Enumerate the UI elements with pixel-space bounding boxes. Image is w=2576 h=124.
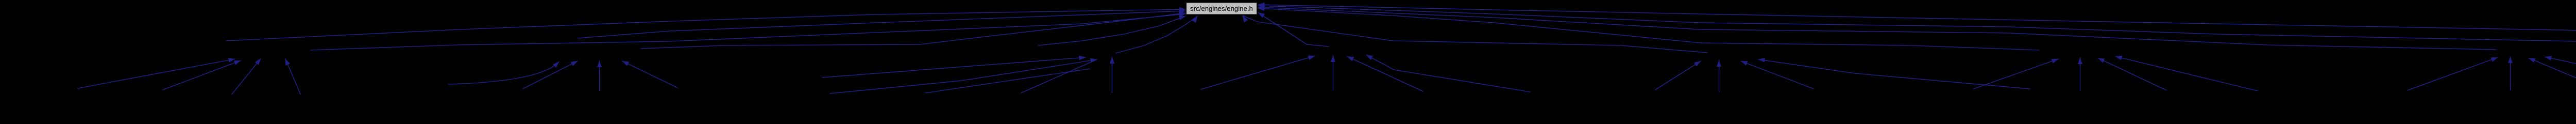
edge C -> engine.h (right, corner)	[1258, 12, 1329, 47]
edge into node E #3	[2098, 58, 2167, 90]
edge into node E #4	[2115, 56, 2258, 91]
edge U1 -> engine.h (left, uppermost)	[226, 7, 1186, 41]
edge into node D #3	[1741, 61, 1814, 89]
edge into node X #1	[822, 56, 1086, 78]
edge into node B #3 (vertical)	[597, 60, 602, 91]
edge E -> engine.h (right)	[1258, 6, 2040, 50]
edge into node A #4	[285, 58, 301, 95]
edge H -> engine.h (right)	[1258, 3, 2576, 50]
edge into node C #3	[1347, 56, 1423, 91]
edge U2 -> engine.h (left, upper)	[578, 9, 1186, 38]
edge into node B #1	[448, 61, 560, 84]
edge into node X #3	[1021, 59, 1097, 93]
edge S2 -> engine.h (left, corner)	[1038, 16, 1186, 45]
edge into node D #1	[1655, 61, 1701, 90]
edge into node F #1	[2408, 57, 2498, 90]
edge G -> engine.h (right)	[1258, 4, 2576, 48]
edge into node E #2 (vertical)	[2078, 57, 2082, 91]
edge F -> engine.h (right)	[1258, 5, 2497, 50]
edge B -> engine.h (left, lower)	[641, 11, 1186, 49]
edge X -> engine.h (bottom-left arrow)	[1116, 16, 1198, 53]
edge A -> engine.h (left, mid)	[311, 12, 1186, 50]
edge into node D #2 (vertical)	[1717, 60, 1721, 92]
edge into node C #2 (vertical)	[1331, 55, 1335, 90]
edge into node X #5 (vertical)	[1110, 57, 1114, 93]
edge into node B #4	[622, 61, 678, 88]
edge into node A #3	[232, 58, 261, 95]
edge into node C #1	[1201, 55, 1315, 89]
edge into node F #2 (vertical)	[2508, 56, 2513, 90]
edge into node F #4	[2545, 56, 2576, 90]
edge into node X #4 (lower shallow)	[925, 69, 1090, 93]
edge into node E #1	[1974, 59, 2059, 89]
edge into node D #4	[1758, 58, 2030, 89]
edge into node A #2	[163, 60, 241, 90]
edge into node F #3	[2529, 58, 2576, 92]
node src/engines/engine.h	[1187, 3, 1257, 14]
edge D -> engine.h (bottom-right arrow)	[1243, 16, 1708, 53]
edge into node X #2 (curved)	[830, 58, 1097, 94]
edge into node C #4	[1366, 55, 1531, 92]
edge into node A #1	[78, 58, 235, 88]
edge into node B #2	[523, 61, 578, 89]
svg-text:src/engines/engine.h: src/engines/engine.h	[1190, 5, 1253, 12]
